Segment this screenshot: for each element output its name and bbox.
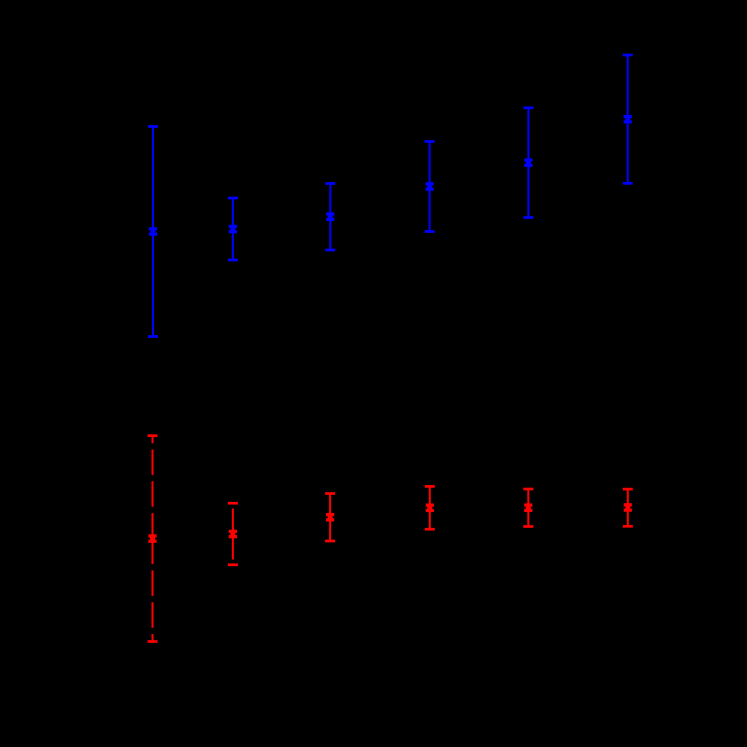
- red errorbar point 2 line (lower half): [232, 534, 234, 565]
- red errorbar point 1 line (upper half): [152, 436, 154, 539]
- red marker 6 (square with X): [624, 503, 632, 512]
- blue errorbar point 3 line (upper half): [329, 184, 331, 217]
- red marker 4 (square with X): [426, 504, 434, 513]
- red errorbar point 4 line (lower half): [429, 508, 431, 529]
- blue marker 5 (square with X): [524, 158, 532, 167]
- red errorbar point 4 top cap: [425, 485, 435, 488]
- red errorbar point 4 line (upper half): [429, 486, 431, 507]
- blue errorbar point 6 bottom cap: [623, 182, 633, 185]
- blue errorbar point 4 bottom cap: [425, 230, 435, 233]
- blue errorbar point 4 line (lower half): [429, 187, 431, 232]
- blue errorbar point 5 bottom cap: [523, 216, 533, 219]
- red errorbar point 3 line (lower half): [329, 517, 331, 541]
- red marker 2 (square with X): [229, 530, 237, 539]
- blue marker 3 (square with X): [326, 212, 334, 221]
- blue errorbar point 2 bottom cap: [228, 259, 238, 262]
- red errorbar point 6 line (lower half): [627, 508, 629, 527]
- blue marker 6 (square with X): [624, 115, 632, 124]
- red errorbar point 3 bottom cap: [325, 540, 335, 543]
- red errorbar point 6 top cap: [623, 488, 633, 491]
- red errorbar point 4 bottom cap: [425, 528, 435, 531]
- blue errorbar point 3 top cap: [325, 182, 335, 185]
- blue errorbar point 1 top cap: [148, 125, 158, 128]
- red errorbar point 3 line (upper half): [329, 494, 331, 518]
- blue errorbar point 3 line (lower half): [329, 217, 331, 250]
- red errorbar series (dashed lines, square markers): [148, 436, 633, 642]
- blue errorbar point 3 bottom cap: [325, 249, 335, 252]
- blue errorbar point 6 line (lower half): [627, 119, 629, 183]
- blue errorbar point 2 line (upper half): [232, 198, 234, 229]
- blue errorbar point 1 bottom cap: [148, 335, 158, 338]
- blue errorbar point 2 top cap: [228, 197, 238, 200]
- blue errorbar point 4 line (upper half): [429, 142, 431, 187]
- blue errorbar point 1 line (lower half): [152, 232, 154, 337]
- red errorbar point 5 line (upper half): [527, 489, 529, 508]
- red marker 5 (square with X): [524, 503, 532, 512]
- red errorbar point 5 top cap: [523, 488, 533, 491]
- red errorbar point 1 top cap: [148, 434, 158, 437]
- red errorbar point 2 line (upper half): [232, 503, 234, 534]
- blue marker 4 (square with X): [426, 182, 434, 191]
- blue errorbar point 2 line (lower half): [232, 229, 234, 260]
- red errorbar point 5 bottom cap: [523, 525, 533, 528]
- blue errorbar point 1 line (upper half): [152, 127, 154, 232]
- red errorbar point 5 line (lower half): [527, 508, 529, 527]
- red errorbar point 1 bottom cap: [148, 640, 158, 643]
- red errorbar point 1 line (lower half): [152, 539, 154, 642]
- red errorbar point 3 top cap: [325, 492, 335, 495]
- blue errorbar point 5 line (upper half): [527, 108, 529, 163]
- red errorbar point 2 top cap: [228, 502, 238, 505]
- blue errorbar point 6 line (upper half): [627, 55, 629, 119]
- blue errorbar point 5 line (lower half): [527, 163, 529, 218]
- blue errorbar series (solid lines, square markers): [148, 55, 633, 337]
- blue errorbar point 6 top cap: [623, 54, 633, 57]
- blue marker 2 (square with X): [229, 225, 237, 234]
- red errorbar point 2 bottom cap: [228, 563, 238, 566]
- blue marker 1 (square with X): [149, 227, 157, 236]
- red errorbar point 6 bottom cap: [623, 525, 633, 528]
- blue errorbar point 5 top cap: [523, 106, 533, 109]
- red errorbar point 6 line (upper half): [627, 489, 629, 507]
- blue errorbar point 4 top cap: [425, 140, 435, 143]
- red marker 3 (square with X): [326, 513, 334, 522]
- red marker 1 (square with X): [148, 534, 156, 543]
